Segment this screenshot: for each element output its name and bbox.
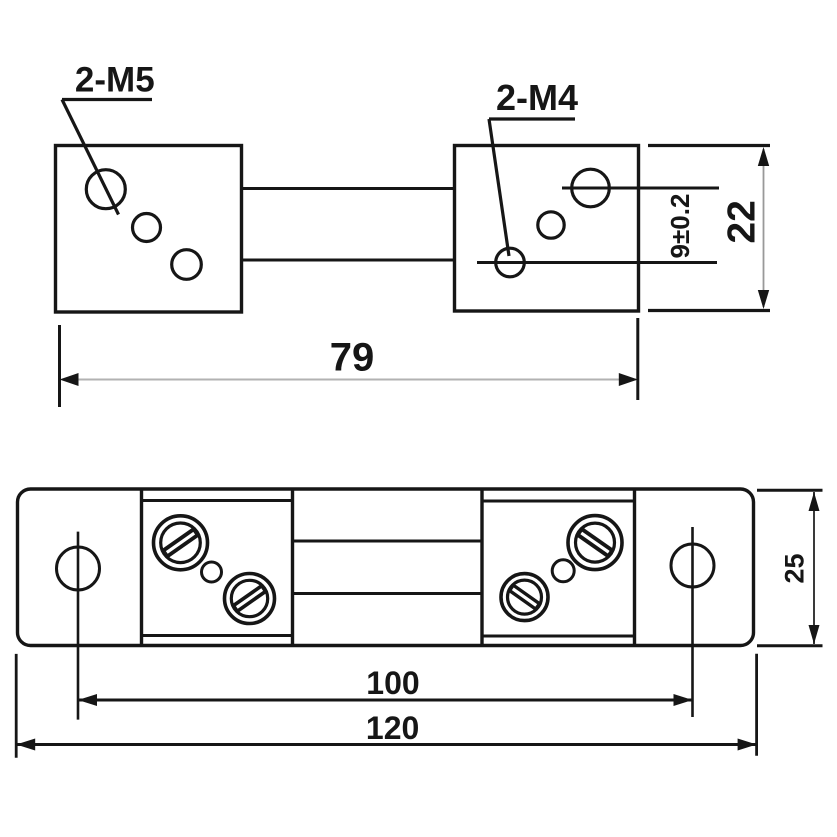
left block hole middle bbox=[133, 214, 161, 242]
right terminal block top shoulder bbox=[482, 500, 635, 503]
svg-text:22: 22 bbox=[721, 200, 764, 243]
right mounting hole bbox=[671, 544, 714, 587]
right terminal block (top view) bbox=[455, 146, 639, 312]
leader underline 2-M5 bbox=[62, 98, 152, 101]
left block hole bottom bbox=[172, 250, 202, 280]
left block hole big (M5) bbox=[86, 170, 125, 209]
screw A2 (left block, lower) bbox=[225, 574, 275, 624]
left terminal block (top view) bbox=[56, 146, 242, 313]
svg-text:100: 100 bbox=[366, 665, 419, 701]
left terminal block top shoulder bbox=[142, 499, 293, 502]
screw B2 (right block, upper-right) bbox=[568, 516, 622, 570]
centerline through right big hole bbox=[562, 187, 719, 190]
shunt bar top edge (wire) bbox=[241, 187, 455, 190]
dimension 25 line bbox=[813, 492, 815, 644]
right hole center line / 100 extension bbox=[691, 527, 694, 717]
dimension 120 extension line right bbox=[755, 654, 758, 756]
solder dot right bbox=[552, 560, 574, 582]
svg-text:25: 25 bbox=[780, 553, 810, 583]
centerline through right bottom hole bbox=[477, 261, 717, 264]
svg-text:9±0.2: 9±0.2 bbox=[665, 194, 695, 259]
manganin strip upper line bbox=[293, 540, 483, 543]
dimension 22 arrow top bbox=[758, 147, 769, 166]
screw A1 (left block, upper) bbox=[154, 516, 208, 570]
shunt base body (rounded) bbox=[18, 489, 754, 646]
dimension 79 arrow left bbox=[60, 373, 79, 386]
right terminal block bottom shoulder bbox=[482, 635, 635, 638]
right terminal block (front view) left edge bbox=[480, 489, 483, 645]
dimension 120 arrow right bbox=[738, 739, 757, 751]
dimension 25 extension line bottom bbox=[757, 644, 823, 647]
manganin strip lower line bbox=[293, 592, 483, 595]
right block hole middle bbox=[538, 212, 564, 238]
svg-text:120: 120 bbox=[366, 710, 419, 746]
left hole center line / 100 extension bbox=[77, 532, 80, 720]
dimension 120 arrow left bbox=[16, 739, 35, 751]
svg-text:2-M4: 2-M4 bbox=[496, 77, 578, 118]
dimension 25 extension line top bbox=[757, 489, 823, 492]
dimension 22 line bbox=[763, 149, 765, 307]
leader line 2-M4 to hole bbox=[489, 119, 509, 256]
right terminal block right edge bbox=[633, 489, 636, 645]
left mounting hole bbox=[57, 547, 100, 590]
dimension 79 extension line left bbox=[58, 325, 61, 407]
right block hole bottom (M4) bbox=[496, 248, 525, 277]
dimension 22 arrow bottom bbox=[758, 290, 769, 309]
shunt bar bottom edge (wire) bbox=[241, 259, 455, 262]
dimension 79 extension line right bbox=[636, 318, 639, 400]
svg-text:2-M5: 2-M5 bbox=[75, 61, 155, 100]
leader line 2-M5 to hole bbox=[62, 100, 119, 215]
dimension 100 arrow left bbox=[78, 694, 97, 706]
solder dot left bbox=[202, 562, 222, 582]
leader underline 2-M4 bbox=[489, 117, 575, 120]
dimension 79 line bbox=[62, 379, 636, 381]
dimension 25 arrow bottom bbox=[809, 625, 820, 644]
left terminal block right edge bbox=[291, 489, 294, 645]
dimension 22 extension line top bbox=[648, 144, 770, 147]
svg-text:79: 79 bbox=[330, 336, 375, 380]
dimension 100 arrow right bbox=[674, 694, 693, 706]
right block hole big (top right) bbox=[572, 169, 610, 207]
dimension 79 arrow right bbox=[619, 373, 638, 386]
screw B1 (right block, lower-left) bbox=[501, 574, 548, 621]
dimension 22 extension line bottom bbox=[648, 309, 770, 312]
dimension 120 line bbox=[16, 743, 756, 746]
left terminal block bottom shoulder bbox=[142, 634, 293, 637]
dimension 100 line bbox=[78, 699, 693, 702]
dimension 25 arrow top bbox=[809, 492, 820, 511]
left terminal block (front view) left edge bbox=[140, 489, 143, 645]
dimension 120 extension line left bbox=[15, 654, 18, 758]
